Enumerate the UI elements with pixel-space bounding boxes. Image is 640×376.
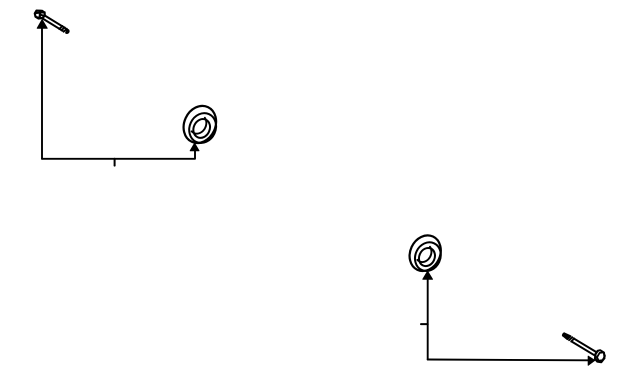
tick mark group 2: [421, 323, 428, 325]
arrow to bolt B1: [37, 20, 47, 159]
leader line group 2 (horizontal): [428, 359, 589, 362]
bolt B1 (top-left, head upper-left, threads lower-right): [35, 11, 70, 35]
tick mark group 1: [114, 159, 116, 166]
arrow to washer W1: [190, 143, 199, 151]
washer W1 (seal ring, top group): [178, 101, 222, 149]
arrow to bolt B2: [588, 356, 595, 365]
washer W2 (seal ring, bottom group): [404, 230, 447, 276]
bolt B2 (bottom-right, head lower-right, threads upper-left): [562, 332, 606, 362]
arrow to washer W2: [423, 271, 433, 359]
leader line group 1 (horizontal): [42, 151, 195, 159]
